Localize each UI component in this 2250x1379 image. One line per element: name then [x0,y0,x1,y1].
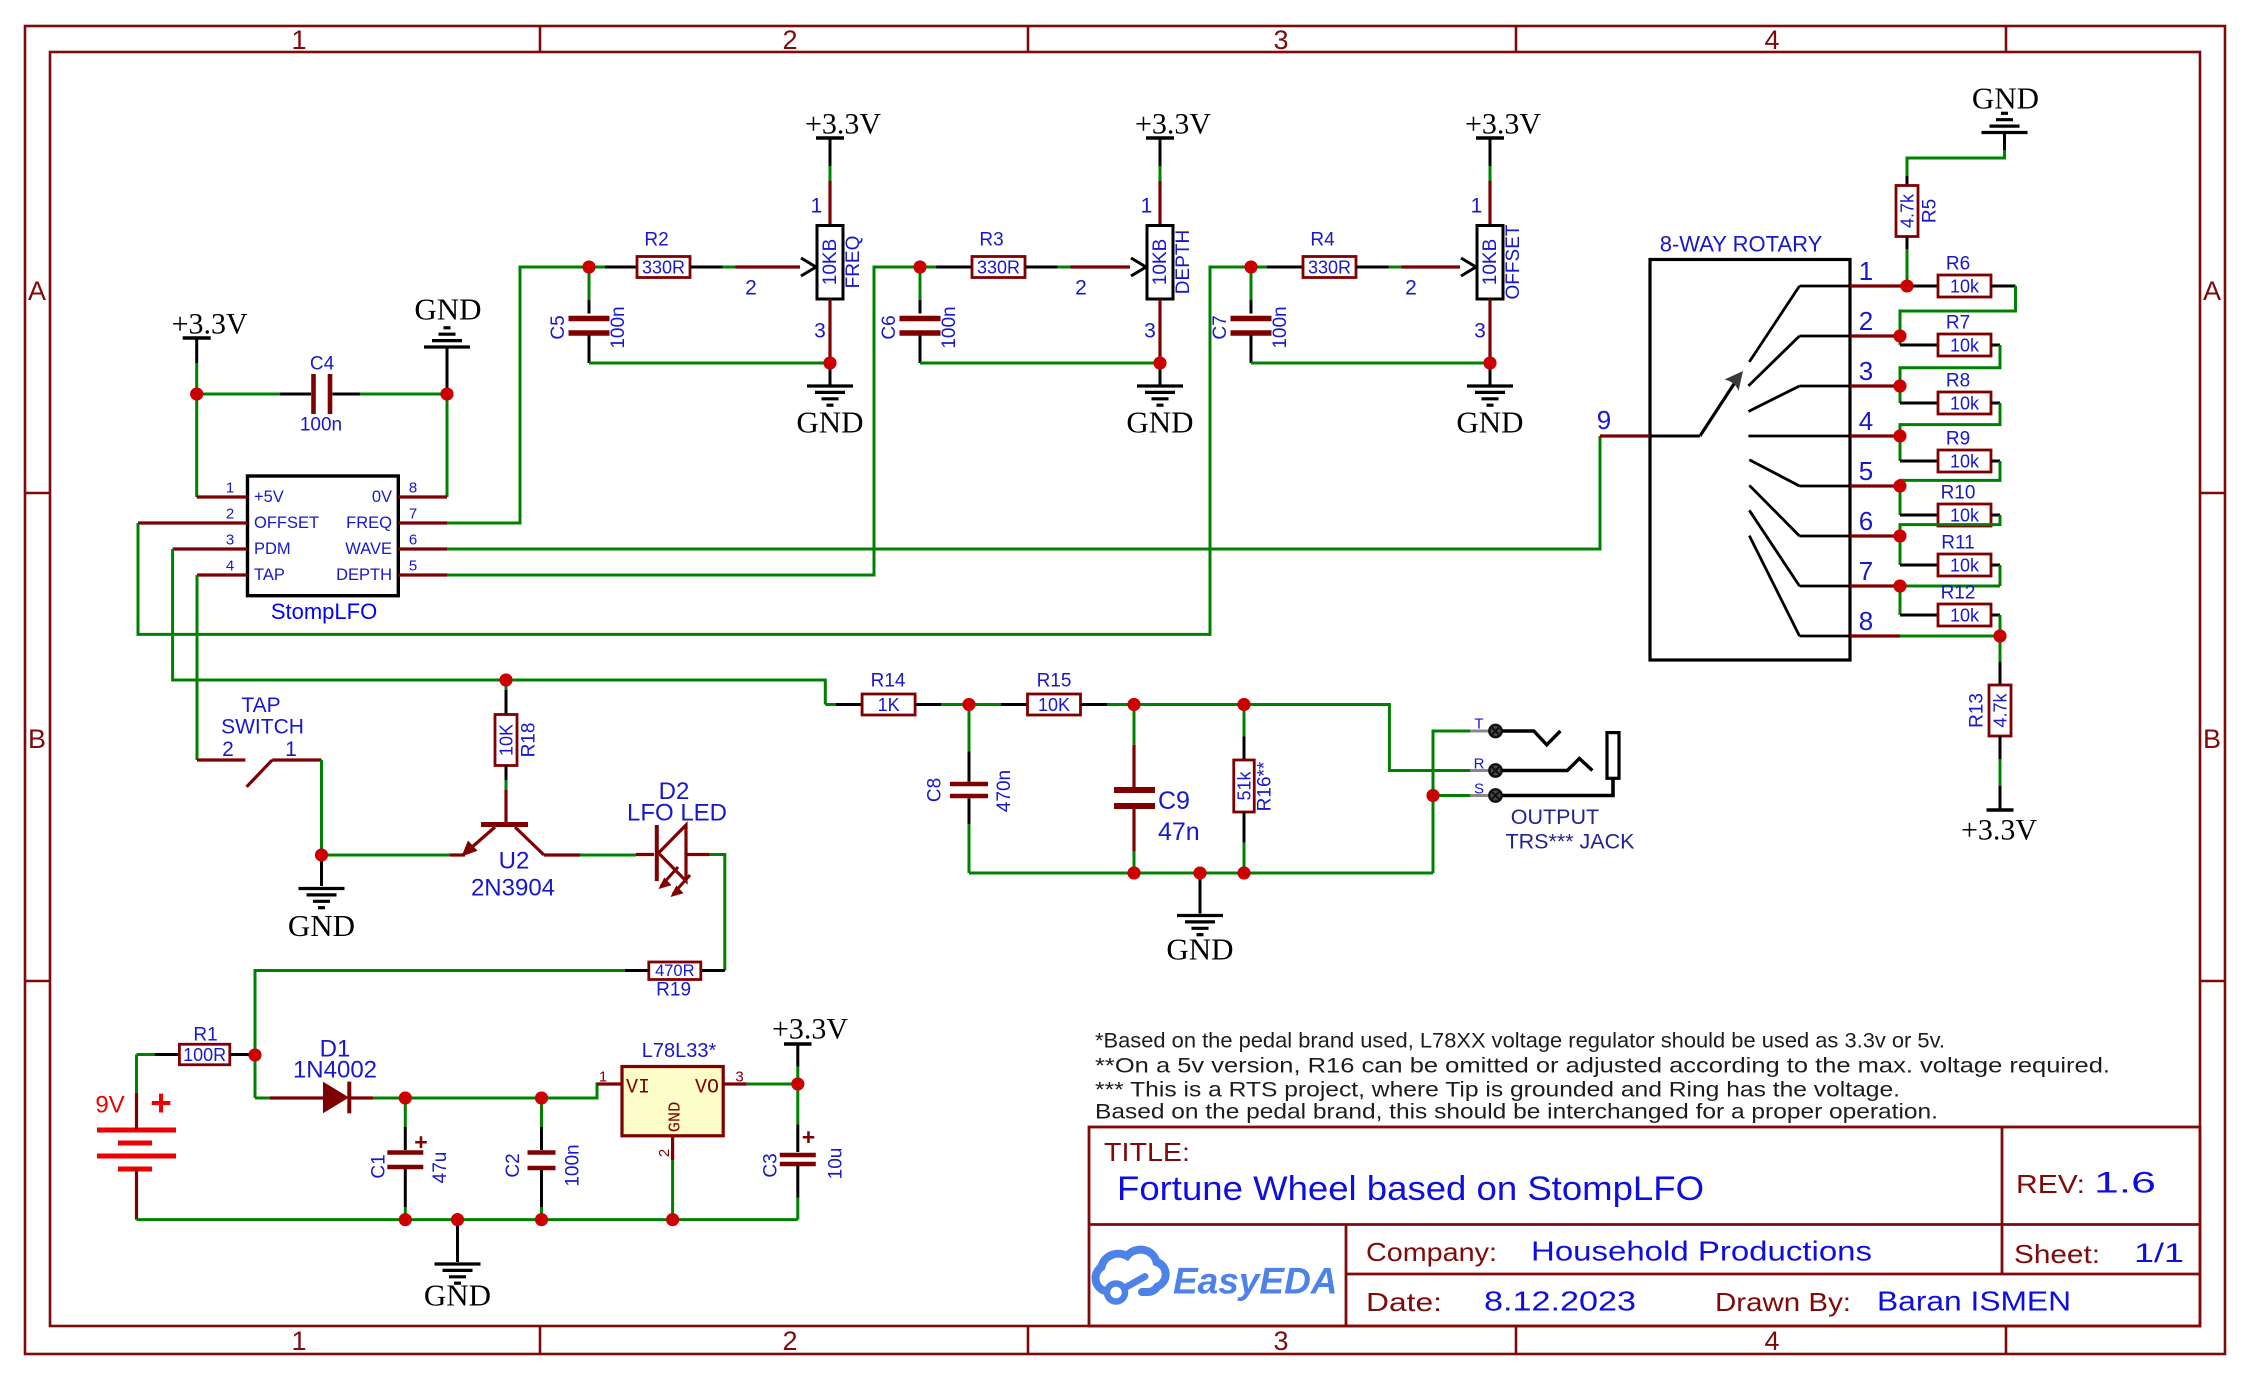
wire node to IC pin8 riser [446,394,449,497]
node D1/C1 [399,1092,412,1105]
potentiometer DEPTH pin3 lead [1158,299,1161,363]
wire cap to pot gnd (OFFSET) [1251,362,1490,365]
svg-text:10k: 10k [1950,506,1980,526]
potentiometer OFFSET pin1 lead [1488,181,1491,226]
svg-text:330R: 330R [642,258,685,278]
node C4 left [190,388,203,401]
svg-text:B: B [28,724,46,754]
svg-text:2: 2 [782,1326,797,1356]
svg-text:2: 2 [222,738,234,761]
svg-text:StompLFO: StompLFO [271,599,377,624]
wire ground rail under filter [969,872,1433,875]
capacitor C3 10u polarized [796,1084,799,1124]
svg-text:R9: R9 [1946,429,1970,450]
svg-text:OFFSET: OFFSET [1503,224,1524,299]
resistor 330R (DEPTH) [920,266,936,269]
wire R11 return [1991,564,2000,567]
jack J1 sleeve line [1502,778,1613,795]
svg-text:*Based on the pedal brand used: *Based on the pedal brand used, L78XX vo… [1095,1030,1945,1053]
svg-text:470n: 470n [994,770,1015,812]
node FREQ pot pin3 [824,357,837,370]
svg-text:Company:: Company: [1366,1237,1497,1267]
potentiometer OFFSET wiper arrow [1461,258,1476,267]
node PDM/R18 [500,674,513,687]
capacitor C filter (FREQ) [588,267,591,300]
svg-text:PDM: PDM [254,540,291,558]
svg-text:2: 2 [1405,277,1417,300]
power +3.3V (FREQ pot) [816,136,844,140]
svg-text:7: 7 [1859,556,1873,586]
rotary switch contact stubs and whiskers [1800,285,1851,288]
wire resistor to wiper (OFFSET) [1356,266,1389,269]
node VO/+3.3V/C3 [791,1078,804,1091]
wire FREQ net pin7 to pot junction [447,267,589,523]
svg-text:SWITCH: SWITCH [221,716,304,739]
svg-text:TAP: TAP [241,694,280,717]
node DEPTH RC junction [914,261,927,274]
wire PDM node to R14 [506,679,825,682]
ground GND (bottom rail) [456,1220,459,1262]
wire R7 return [1991,344,2000,347]
svg-text:10k: 10k [1950,394,1980,414]
svg-text:GND: GND [288,908,355,943]
IC U1 StompLFO body [248,476,399,596]
potentiometer DEPTH pin1 lead [1158,181,1161,226]
wire D1 node to C2 node [405,1097,541,1100]
svg-text:3: 3 [1144,320,1156,343]
node jack sleeve [1427,789,1440,802]
wire sleeve/tip ground link [1433,731,1470,796]
svg-text:1K: 1K [878,695,900,715]
svg-text:C1: C1 [369,1154,390,1178]
wire R8 return [1991,402,2000,405]
svg-text:VI: VI [626,1077,650,1100]
svg-text:4: 4 [226,558,234,575]
title block frame [1089,1127,2200,1326]
svg-text:GND: GND [1456,405,1523,440]
svg-text:Based on the pedal brand, this: Based on the pedal brand, this should be… [1095,1101,1938,1124]
node DEPTH pot pin3 [1154,357,1167,370]
resistor R7 10k [1899,336,1902,345]
LED D2 emission arrows [661,867,678,886]
svg-text:R7: R7 [1946,313,1970,334]
node C4 right [441,388,454,401]
svg-text:10KB: 10KB [1150,239,1171,285]
ground GND (tap switch) [320,855,323,886]
svg-text:10KB: 10KB [820,239,841,285]
svg-text:B: B [2203,724,2221,754]
svg-text:5: 5 [1859,456,1873,486]
wire R10 return [1991,514,2000,517]
svg-text:TITLE:: TITLE: [1104,1137,1190,1167]
svg-text:+3.3V: +3.3V [772,1013,848,1046]
rotary switch common arm with arrow [1650,435,1700,438]
svg-text:+: + [150,1083,172,1124]
wire gnd node to U2 emitter [322,854,451,857]
svg-text:4.7k: 4.7k [1991,692,2011,727]
svg-text:8-WAY ROTARY: 8-WAY ROTARY [1660,232,1823,257]
svg-text:R6: R6 [1946,254,1970,275]
svg-text:4: 4 [1764,1326,1779,1356]
jack J1 pin leads [1470,730,1489,733]
svg-text:GND: GND [667,1102,686,1133]
transistor U2 2N3904 [504,790,507,822]
svg-text:LFO LED: LFO LED [627,800,727,827]
resistor R14 1K [825,703,836,706]
svg-text:6: 6 [1859,506,1873,536]
svg-text:9: 9 [1597,405,1611,435]
svg-text:C2: C2 [503,1153,524,1177]
wire node to IC pin1 riser [195,394,198,497]
potentiometer DEPTH wiper arrow [1131,258,1146,267]
svg-text:GND: GND [1972,81,2039,116]
resistor R6 10k [1907,285,1938,288]
svg-text:330R: 330R [1308,258,1351,278]
svg-text:2: 2 [782,25,797,55]
ground GND (DEPTH pot) [1159,363,1162,386]
switch S1 symbol [197,758,245,761]
wire R9 return [1991,460,2000,463]
potentiometer OFFSET pin3 lead [1488,299,1491,363]
resistor R15 10K [969,703,1001,706]
node R15/C9 [1128,698,1141,711]
svg-text:3: 3 [226,532,234,549]
node rotary pin5 [1894,480,1907,493]
svg-text:R13: R13 [1967,693,1988,728]
power +3.3V (top-left) [183,336,211,340]
svg-text:9V: 9V [95,1092,124,1119]
resistor R1 100R [155,1053,179,1056]
svg-text:470R: 470R [655,962,695,980]
node OFFSET RC junction [1245,261,1258,274]
svg-text:R14: R14 [871,671,906,692]
svg-text:R1: R1 [193,1025,217,1046]
svg-text:7: 7 [409,506,417,523]
svg-text:330R: 330R [977,258,1020,278]
svg-text:R11: R11 [1941,533,1974,554]
svg-text:10u: 10u [826,1148,847,1180]
svg-text:Household Productions: Household Productions [1531,1236,1872,1267]
junction dots overlay [190,388,203,401]
node tap-switch ground [315,849,328,862]
svg-text:1: 1 [285,738,297,761]
resistor 330R (FREQ) [589,266,605,269]
node rotary pin2 [1894,330,1907,343]
frame zone ticks right [2200,492,2225,495]
wire R19 to battery node [255,971,625,1056]
svg-text:2: 2 [1859,306,1873,336]
svg-text:R16**: R16** [1255,761,1276,811]
node rotary pin6 [1894,530,1907,543]
svg-text:4.7k: 4.7k [1898,193,1918,228]
svg-text:1: 1 [1859,256,1873,286]
capacitor C filter (DEPTH) [919,267,922,300]
wire DEPTH net pin5 to pot junction [447,267,920,575]
svg-text:R10: R10 [1941,483,1976,504]
node C2 top [535,1092,548,1105]
svg-text:1: 1 [811,195,823,218]
resistor R18 10K [505,680,508,690]
svg-text:Fortune Wheel based on StompLF: Fortune Wheel based on StompLFO [1117,1170,1704,1208]
regulator pin3 lead [723,1082,747,1085]
capacitor C2 100n [540,1098,543,1127]
svg-text:2: 2 [226,506,234,523]
svg-text:10k: 10k [1950,452,1980,472]
wire R6 return [1991,285,2016,288]
potentiometer 10KB DEPTH body [1147,226,1173,300]
svg-text:8: 8 [409,480,417,497]
svg-text:5: 5 [409,558,417,575]
rotary pin8 wire to node [1900,635,2000,638]
rotary switch body [1650,260,1850,661]
wire node down to D1 [254,1055,257,1098]
svg-text:U2: U2 [499,848,530,875]
resistor R9 10k [1899,436,1902,461]
potentiometer 10KB FREQ body [817,226,843,300]
svg-text:A: A [28,276,46,306]
node OFFSET pot pin3 [1484,357,1497,370]
StompLFO pin leads right pins 8-5 [398,495,447,498]
resistor R5 4.7k [1906,176,1909,186]
wire resistor to wiper (DEPTH) [1025,266,1058,269]
svg-text:+3.3V: +3.3V [805,108,881,141]
svg-text:A: A [2203,276,2221,306]
wire D2 to R19 [710,855,725,971]
svg-text:REV:: REV: [2016,1169,2085,1199]
resistor R12 10k [1899,586,1902,615]
svg-text:100n: 100n [1270,306,1291,348]
svg-text:+: + [802,1124,815,1150]
svg-text:10k: 10k [1950,336,1980,356]
capacitor C4 100n [197,393,280,396]
ground GND (top-left) [444,326,451,329]
svg-text:1/1: 1/1 [2134,1238,2184,1268]
svg-text:R2: R2 [644,230,668,251]
svg-text:DEPTH: DEPTH [336,566,392,584]
svg-text:2N3904: 2N3904 [471,875,555,902]
svg-text:+3.3V: +3.3V [1135,108,1211,141]
svg-text:TAP: TAP [254,566,285,584]
jack J1 ring contact line [1502,759,1592,771]
node rotary pin3 [1894,380,1907,393]
regulator pin1 lead [597,1082,622,1085]
potentiometer FREQ wiper arrow [801,258,816,267]
svg-text:100n: 100n [300,415,342,436]
svg-text:GND: GND [796,405,863,440]
wire switch pin1 to gnd node [320,760,323,855]
svg-text:3: 3 [1474,320,1486,343]
svg-text:Date:: Date: [1366,1287,1442,1317]
svg-text:51k: 51k [1235,770,1255,800]
svg-text:10K: 10K [1038,695,1070,715]
node rotary pin1 [1901,280,1914,293]
svg-text:Sheet:: Sheet: [2014,1239,2100,1269]
svg-text:R12: R12 [1941,583,1976,604]
svg-text:GND: GND [424,1278,491,1313]
wire signal to jack ring [1244,705,1470,771]
jack J1 plug body [1607,733,1619,779]
EasyEDA logo cloud [1096,1250,1166,1292]
node R14/R15/C8 [963,698,976,711]
svg-text:C8: C8 [925,778,946,802]
node rotary pin7 [1894,580,1907,593]
power +3.3V (below R13, downward) [1987,808,2014,812]
svg-text:OFFSET: OFFSET [254,514,319,532]
frame zone ticks bottom [539,1326,542,1354]
node R16 gnd rail [1238,867,1251,880]
svg-text:Baran ISMEN: Baran ISMEN [1877,1286,2071,1317]
frame zone ticks left [25,492,50,495]
svg-text:100n: 100n [608,306,629,348]
svg-text:TRS*** JACK: TRS*** JACK [1505,830,1635,854]
node rotary pin4 [1894,430,1907,443]
svg-text:4: 4 [1764,25,1779,55]
svg-text:0V: 0V [372,488,392,506]
rotary pin leads right side [1850,284,1907,287]
node regulator gnd rail [666,1213,679,1226]
svg-text:S: S [1474,781,1484,798]
svg-text:GND: GND [1166,932,1233,967]
wire cap to pot gnd (FREQ) [589,362,830,365]
svg-text:EasyEDA: EasyEDA [1173,1261,1338,1302]
svg-text:C5: C5 [548,315,569,339]
svg-text:C3: C3 [761,1153,782,1177]
svg-text:47n: 47n [1158,818,1200,846]
resistor R13 4.7k [1999,636,2002,662]
resistor R8 10k [1899,386,1902,403]
svg-text:L78L33*: L78L33* [642,1040,717,1062]
svg-text:**On a 5v version, R16 can be: **On a 5v version, R16 can be omitted or… [1095,1055,2110,1078]
svg-text:R5: R5 [1920,199,1941,223]
wire PDM net pin3 to R18/R14 [173,549,826,705]
resistor 330R (OFFSET) [1251,266,1267,269]
svg-text:WAVE: WAVE [345,540,392,558]
svg-text:10k: 10k [1950,277,1980,297]
svg-text:FREQ: FREQ [346,514,392,532]
potentiometer FREQ pin3 lead [828,299,831,363]
svg-text:C4: C4 [310,354,335,375]
wire OFFSET net pin2 to pot junction [138,267,1251,634]
StompLFO pin leads left pins 1-4 [197,495,248,498]
svg-text:10K: 10K [497,724,517,756]
svg-text:3: 3 [1273,1326,1288,1356]
svg-text:1: 1 [1141,195,1153,218]
svg-text:8.12.2023: 8.12.2023 [1484,1286,1636,1317]
wire U2 collector to D2 [580,854,636,857]
svg-text:VO: VO [695,1077,719,1100]
svg-text:R3: R3 [979,230,1003,251]
svg-text:GND: GND [414,292,481,327]
node gnd stem rail [1194,867,1207,880]
svg-text:47u: 47u [430,1152,451,1184]
svg-text:3: 3 [1273,25,1288,55]
potentiometer 10KB OFFSET body [1477,226,1503,300]
svg-text:1: 1 [291,25,306,55]
svg-text:C6: C6 [879,315,900,339]
svg-text:100R: 100R [183,1045,226,1065]
svg-text:1: 1 [291,1326,306,1356]
capacitor C8 470n [968,705,971,752]
svg-text:+3.3V: +3.3V [1465,108,1541,141]
LED D2 symbol [636,853,654,856]
regulator pin2 lead [671,1136,674,1160]
svg-text:T: T [1474,716,1483,733]
svg-text:+3.3V: +3.3V [172,308,248,341]
ground GND (OFFSET pot) [1489,363,1492,386]
svg-text:10k: 10k [1950,606,1980,626]
svg-text:*** This is a RTS project, whe: *** This is a RTS project, where Tip is … [1095,1079,1900,1102]
wire node to R16 node [1134,703,1244,706]
svg-text:2: 2 [656,1149,673,1157]
svg-text:1: 1 [226,480,234,497]
ground GND (FREQ pot) [829,363,832,386]
svg-text:1: 1 [1471,195,1483,218]
node R1/R19/D1 [249,1049,262,1062]
resistor R11 10k [1899,536,1902,565]
node C2 rail [535,1213,548,1226]
capacitor C9 47n [1133,705,1136,745]
capacitor C filter (OFFSET) [1250,267,1253,300]
node FREQ RC junction [583,261,596,274]
jack J1 contact circles [1489,725,1501,737]
svg-text:2: 2 [1075,277,1087,300]
svg-text:100n: 100n [563,1144,584,1186]
svg-text:+: + [414,1129,427,1155]
node R12/R13 [1994,630,2007,643]
svg-text:OUTPUT: OUTPUT [1511,805,1599,829]
svg-text:4: 4 [1859,406,1873,436]
wire rail up to jack sleeve [1432,796,1435,874]
svg-text:+5V: +5V [254,488,284,506]
svg-text:R19: R19 [656,980,691,1001]
svg-text:6: 6 [409,532,417,549]
node gnd stem bottom rail [451,1213,464,1226]
svg-text:DEPTH: DEPTH [1173,230,1194,294]
svg-text:R15: R15 [1037,671,1072,692]
node C9 gnd rail [1128,867,1141,880]
svg-text:1N4002: 1N4002 [293,1057,377,1084]
ground GND (top-right) [2001,112,2008,115]
svg-text:R4: R4 [1310,230,1335,251]
svg-text:3: 3 [1859,356,1873,386]
node C1 rail [399,1213,412,1226]
svg-text:+3.3V: +3.3V [1961,814,2037,847]
svg-text:10KB: 10KB [1480,239,1501,285]
wire +3.3V to C4 node [195,363,198,394]
power +3.3V (regulator output) [796,1067,799,1085]
svg-text:R18: R18 [519,723,540,758]
svg-text:8: 8 [1859,606,1873,636]
wire battery minus rail [135,1169,138,1220]
wire battery plus to R1 [135,1093,138,1130]
wire R12 return [1991,614,2000,617]
svg-text:1.6: 1.6 [2094,1167,2156,1200]
capacitor C1 47u polarized [404,1098,407,1127]
resistor R16 51k [1243,705,1246,737]
svg-text:R: R [1474,756,1485,773]
resistor R10 10k [1899,486,1902,515]
jack J1 tip contact line [1502,731,1560,745]
wire gnd to R5 [1907,150,2005,176]
svg-text:100n: 100n [939,306,960,348]
svg-text:10k: 10k [1950,556,1980,576]
svg-text:2: 2 [745,277,757,300]
node R16 top [1238,698,1251,711]
svg-text:GND: GND [1126,405,1193,440]
power +3.3V (OFFSET pot) [1476,136,1504,140]
potentiometer FREQ pin1 lead [828,181,831,226]
svg-text:3: 3 [814,320,826,343]
